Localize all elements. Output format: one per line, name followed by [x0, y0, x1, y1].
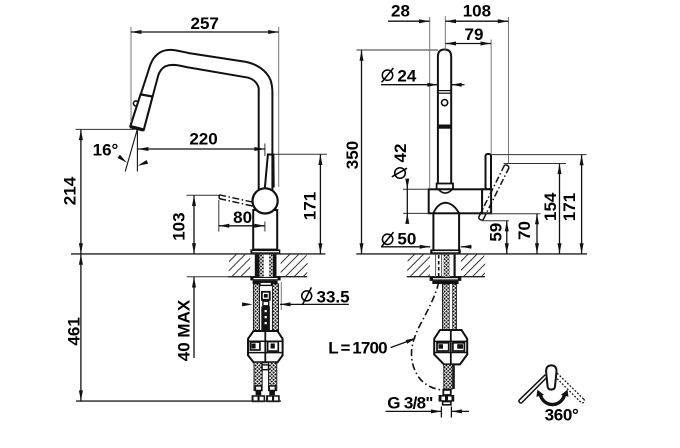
- label dia42 (rotated): [391, 144, 410, 179]
- dim dia50: [381, 246, 430, 248]
- ext 28: [429, 17, 431, 189]
- hose weight barrel (left view): [248, 331, 283, 362]
- 154 arrows: [558, 164, 562, 175]
- ext 70: [483, 213, 541, 215]
- 40max arrow: [192, 277, 196, 288]
- label dia33.5: [302, 291, 312, 301]
- ext 154: [504, 163, 566, 165]
- hose weight barrel (right view): [434, 330, 467, 364]
- handle lever open position (phantom): [219, 195, 253, 206]
- hose end box: [443, 390, 451, 395]
- dim G3/8: [386, 410, 442, 412]
- ext dia33.5 right: [280, 282, 282, 310]
- 461 arrows: [79, 254, 83, 265]
- G3/8 arrows: [431, 409, 442, 413]
- ext 171 left-view: [274, 153, 327, 155]
- dim 214: [80, 130, 82, 254]
- svg-text:80: 80: [233, 208, 252, 227]
- svg-text:16°: 16°: [93, 141, 119, 160]
- hose end caps: [252, 395, 266, 402]
- spray head body: [130, 94, 152, 130]
- dim 70: [536, 214, 538, 254]
- hose bundle below deck: [443, 284, 450, 331]
- 220 arrows: [138, 147, 149, 151]
- 80 arrows: [219, 224, 230, 228]
- ext 257 right: [278, 27, 280, 187]
- svg-text:40 MAX: 40 MAX: [175, 299, 194, 361]
- tick 220 right end: [264, 144, 266, 157]
- 171 left arrows: [318, 155, 322, 166]
- deck bottom edge (right): [407, 276, 485, 278]
- handle base: [482, 189, 491, 213]
- dia24 arrows: [427, 83, 438, 87]
- mounting nut below deck (right): [430, 277, 462, 281]
- spout inner edge: [144, 65, 259, 196]
- svg-text:24: 24: [397, 67, 416, 86]
- ext 59: [482, 220, 509, 222]
- ball joint: [253, 188, 278, 213]
- mounting nut below deck: [250, 277, 280, 281]
- handle lever up-position (side view): [265, 154, 274, 187]
- spray head outlet face (thick): [130, 127, 143, 130]
- leader dia33.5: [280, 303, 349, 305]
- svg-text:79: 79: [465, 25, 484, 44]
- 59 arrows: [505, 221, 509, 232]
- deck bottom edge (left): [228, 276, 307, 278]
- tube/body joint arc: [438, 189, 452, 193]
- threaded shank through deck: [255, 254, 277, 277]
- braided hoses below deck: [253, 284, 259, 331]
- deck hatched blocks (right view): [407, 254, 430, 277]
- spray head button bump: [133, 101, 138, 106]
- deck hatched blocks (left view): [228, 254, 250, 277]
- svg-text:103: 103: [170, 212, 189, 240]
- ext 214 top: [76, 128, 136, 130]
- ext dia42 bottom: [403, 212, 429, 214]
- ext 40max deck bottom: [187, 276, 250, 278]
- dim 171 left-view: [319, 155, 321, 254]
- L=1700 leader arrow: [406, 336, 417, 344]
- dim 220: [138, 148, 265, 150]
- ext 350 top: [357, 49, 439, 51]
- svg-text:108: 108: [463, 1, 491, 20]
- svg-text:50: 50: [397, 230, 416, 249]
- svg-text:171: 171: [560, 193, 579, 221]
- aerator circle: [442, 100, 448, 106]
- svg-text:42: 42: [391, 144, 410, 163]
- body column: [253, 210, 277, 250]
- dia50 arrows: [420, 245, 431, 249]
- icon left arm: [519, 375, 547, 403]
- dim 80: [219, 225, 265, 227]
- svg-text:214: 214: [61, 176, 80, 205]
- dim 350: [361, 50, 363, 253]
- dim 171 right-view: [581, 155, 583, 254]
- dim 257: [131, 31, 279, 33]
- dia33.5 arrows: [242, 302, 253, 306]
- label dia50: [382, 234, 392, 244]
- icon arrow heads: [536, 390, 544, 397]
- 350 arrows: [360, 50, 364, 61]
- svg-text:350: 350: [343, 141, 362, 169]
- handle stem (rest): [486, 154, 492, 189]
- cartridge body: [429, 189, 483, 213]
- spray head joint line: [141, 94, 153, 96]
- dim 28: [388, 20, 430, 22]
- tube joint band: [438, 90, 451, 92]
- nut stub: [443, 402, 451, 405]
- ext 103 top: [187, 194, 219, 196]
- ticks G3/8: [440, 407, 442, 418]
- tick 80 right end: [264, 222, 266, 232]
- hose end stems: [255, 386, 261, 391]
- ext 79: [490, 40, 492, 154]
- tube collar: [437, 184, 453, 190]
- icon rotation arrow arc: [540, 394, 565, 405]
- pull-out spray hose loop (phantom): [412, 282, 442, 390]
- deck top line: [71, 253, 325, 255]
- svg-text:171: 171: [301, 192, 320, 220]
- ext centerline top: [444, 16, 446, 50]
- 257 arrows: [131, 30, 142, 34]
- icon knob: [546, 365, 556, 389]
- dia42 arrows: [405, 179, 409, 190]
- svg-text:360°: 360°: [545, 405, 579, 424]
- 214 arrows: [79, 130, 83, 141]
- angle 16 slant ref: [125, 129, 137, 172]
- hose below barrel: [444, 364, 453, 389]
- spout tube: [438, 50, 451, 184]
- 108 arrows: [446, 19, 457, 23]
- dim dia24: [381, 84, 438, 86]
- dim 40max: [193, 277, 195, 358]
- svg-text:28: 28: [391, 1, 410, 20]
- dim 108: [446, 20, 509, 22]
- leader L=1700: [391, 339, 414, 348]
- svg-text:461: 461: [64, 317, 83, 345]
- 70 arrows: [535, 214, 539, 225]
- dim 59: [506, 221, 508, 254]
- svg-text:154: 154: [541, 192, 560, 221]
- dim 79: [446, 43, 492, 45]
- dim 461: [80, 254, 82, 401]
- 171 right arrows: [580, 155, 584, 166]
- ext dia42 top: [403, 188, 429, 190]
- pedestal base flange: [430, 249, 461, 254]
- dim dia42: [406, 180, 408, 222]
- dim 103: [193, 196, 195, 254]
- pull-out hose dashed inside shank: [438, 255, 440, 282]
- hose-end bottom line: [76, 400, 281, 402]
- svg-text:L = 1700: L = 1700: [328, 338, 387, 357]
- 79 arrows: [446, 42, 457, 46]
- inline fittings between hoses: [260, 282, 272, 285]
- base flange above deck: [250, 249, 280, 254]
- svg-text:59: 59: [486, 223, 505, 242]
- ext 108: [508, 17, 510, 163]
- pedestal dome: [433, 203, 459, 214]
- 16deg angle arrows: [117, 155, 128, 165]
- pedestal column: [433, 213, 459, 249]
- ext 80 left: [218, 200, 220, 232]
- handle phantom (tilted): [479, 165, 510, 220]
- svg-text:G 3/8": G 3/8": [387, 394, 432, 413]
- spout outer edge: [130, 50, 272, 196]
- ext 257 left: [130, 27, 132, 122]
- svg-text:257: 257: [191, 14, 219, 33]
- dark ring band: [439, 125, 451, 129]
- 103 arrows: [192, 196, 196, 207]
- ext 171 right-view: [491, 154, 586, 156]
- icon right arm (phantom): [555, 373, 585, 403]
- 28 arrow: [419, 19, 430, 23]
- svg-text:33.5: 33.5: [317, 287, 350, 306]
- dim 154: [559, 164, 561, 254]
- shank through deck (right view): [443, 254, 449, 277]
- angle 16 vertical ref: [136, 129, 138, 172]
- label dia24: [382, 70, 392, 80]
- G3/8 nut: [439, 395, 455, 402]
- svg-text:70: 70: [515, 221, 534, 240]
- hoses below barrel: [254, 362, 262, 390]
- svg-text:220: 220: [189, 130, 217, 149]
